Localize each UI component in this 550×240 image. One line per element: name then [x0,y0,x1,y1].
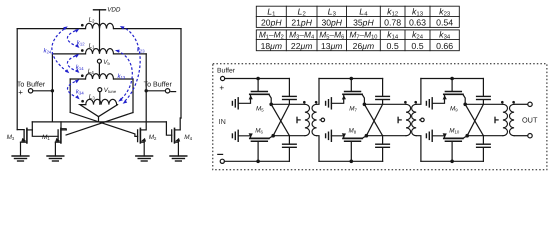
coupling arc k12 [67,30,78,47]
svg-text:0.5: 0.5 [411,41,423,51]
svg-text:OUT: OUT [522,115,538,124]
wire cross-couple diagonal to M2 gate [70,112,137,136]
coupling arc k34 [67,80,78,98]
wire gate riser M10 [451,141,453,161]
transistor M8 [343,138,362,141]
wire stage3 bottom node to T3 [467,135,503,137]
transformer T2 [406,104,411,135]
svg-text:VDD: VDD [107,7,121,14]
polarity dot primary [404,101,407,104]
svg-text:k14: k14 [76,64,84,71]
wire stage3 top node to T3 [465,103,503,105]
transistor M9 [444,92,463,95]
svg-text:21pH: 21pH [291,18,312,28]
buffer dashed enclosure [213,64,547,170]
svg-text:k34: k34 [76,89,84,96]
wire stage2 bottom node to T2 [366,135,406,137]
wire source of M6 to gnd [238,136,250,139]
svg-text:L3: L3 [89,93,96,100]
svg-text:0.78: 0.78 [384,18,401,28]
VDD supply symbol [94,9,106,11]
wire source of M8 to gnd [331,136,343,139]
coupling arc k23 [122,27,141,102]
node Vb terminal [97,59,101,63]
svg-text:26μm: 26μm [353,41,374,51]
junction drain node M9 [463,103,467,107]
L1 polarity dot [81,49,84,52]
OUT top terminal [528,102,532,106]
transistor M2 [138,128,146,156]
wire M1 gate feed from bus [32,122,58,136]
svg-text:L4: L4 [88,68,95,75]
wire drain of M8 [362,136,366,139]
wire L2 right [114,28,182,30]
wire right outer rail (L2 right down) [180,29,182,118]
wire top rail stage3 [421,78,484,80]
wire M1 drain drop [61,122,66,130]
svg-text:M3: M3 [7,134,15,141]
wire bottom rail stage1 [224,160,289,162]
ground under M2 [136,156,153,161]
ground (sideways) at M6 [232,130,238,141]
wire cross-couple M5 drain to lower cap node [271,104,289,135]
wire T2 secondary bottom riser [416,136,421,162]
svg-text:20pH: 20pH [261,18,282,28]
svg-text:0.66: 0.66 [436,41,453,51]
polarity dot primary [501,101,504,104]
wire L4 right [114,78,134,80]
wire L4 right vertical [132,79,134,113]
svg-text:To Buffer: To Buffer [17,80,46,88]
svg-text:Vtune: Vtune [104,87,117,94]
wire drain of M9 [463,94,465,104]
L4 polarity dot [81,74,84,77]
secondary center-tap terminal [420,119,421,121]
wire right inner rail (L1 right to M2 drain) [145,54,147,130]
primary center-tap [495,119,498,121]
wire source of M7 to gnd [331,94,343,103]
junction stage in+ M5 [256,77,260,81]
capacitor bottom of stage M8 [382,136,384,144]
wire L3 left V-arm [80,105,99,117]
wire stage1 bottom node to T1 [273,135,305,137]
IN+ terminal [221,76,225,80]
junction drain node M6 [271,134,275,138]
ground under M3 [12,156,29,161]
capacitor top of stage M7 [382,79,384,97]
wire cross-couple diagonal (right tank to M1) [66,113,133,136]
svg-text:18μm: 18μm [261,41,282,51]
junction stage in- M6 [256,160,260,164]
wire cross-couple M10 drain to upper cap node [467,104,483,135]
junction drain node M7 [363,103,367,107]
wire cross-couple M7 drain to lower cap node [364,104,382,135]
svg-text:M7: M7 [349,106,357,113]
wire top rail stage2 [319,78,383,80]
coupling arc k13 [117,51,132,101]
transistor M1 [55,128,66,156]
svg-text:k23: k23 [137,47,145,54]
wire M4 gate drop [166,122,171,135]
svg-text:L1: L1 [89,43,96,50]
node Vtune terminal [98,88,102,92]
minus sign right [171,91,176,93]
primary center-tap [398,119,401,121]
svg-text:22μm: 22μm [291,41,312,51]
svg-text:Vb: Vb [103,59,110,66]
wire stage1 top node to T1 [271,103,305,105]
Vb stem wire [98,63,100,75]
svg-text:Buffer: Buffer [217,68,236,75]
wire To Buffer left [33,90,53,92]
wire horizontal bus W1 [32,121,166,123]
capacitor top of stage M5 [288,79,290,97]
svg-text:k13: k13 [118,73,126,80]
ground (sideways) at M10 [426,130,432,141]
wire T2 secondary top riser [416,79,421,105]
wire bottom rail stage2 [319,160,383,162]
wire T3 secondary to OUT- [514,135,528,137]
junction stage in+ M9 [450,77,454,81]
svg-text:M1: M1 [42,134,50,141]
wire M3 gate jog [17,129,24,131]
primary center-tap [297,119,300,121]
svg-text:+: + [18,88,23,97]
junction stage in+ M7 [350,77,354,81]
capacitor top of stage M9 [482,79,484,97]
svg-text:0.5: 0.5 [387,41,399,51]
junction right To Buffer tap [145,89,148,92]
transistor M5 [250,92,269,95]
coupling arc k14 [67,55,78,72]
IN minus sign [218,153,223,155]
svg-text:L2: L2 [89,16,96,23]
wire gate riser M5 [257,79,259,92]
svg-text:M5–M6: M5–M6 [319,30,344,41]
ground (sideways) at M5 [232,98,238,109]
L3 polarity dot [81,100,84,103]
wire L4 left vertical [69,79,71,112]
svg-text:M4: M4 [184,134,192,141]
secondary center-tap terminal [320,119,321,121]
wire L3 right V-arm [99,105,118,117]
capacitor bottom of stage M10 [482,136,484,144]
wire drain of M10 [463,136,467,139]
To Buffer right terminal [165,89,169,93]
inductor L1 [86,49,114,54]
transformer T1 [305,104,310,135]
ground under M4 [170,156,187,161]
svg-text:k12: k12 [77,39,85,46]
ground under M1 [47,156,64,161]
ground (sideways) at M7 [326,98,332,109]
junction drain node M10 [465,134,469,138]
wire To Buffer right [146,90,165,92]
wire bottom rail stage3 [421,160,484,162]
transistor M7 [343,92,362,95]
wire gate riser M6 [257,141,259,161]
inductor L3 [86,99,117,104]
wire cross-couple M8 drain to upper cap node [366,104,382,135]
svg-text:M8: M8 [349,127,357,134]
svg-text:+: + [219,84,224,93]
wire drain of M6 [269,136,273,139]
coupling arc k24 [52,28,68,72]
wire V vertex stub [98,117,100,122]
svg-text:30pH: 30pH [321,18,342,28]
transistor M10 [444,138,463,141]
IN- terminal [220,159,224,163]
svg-text:35pH: 35pH [353,18,374,28]
transistor M4 [172,128,180,156]
OUT bottom terminal [528,134,532,138]
svg-text:0.63: 0.63 [409,18,426,28]
svg-text:M6: M6 [255,127,263,134]
svg-text:k24: k24 [44,48,52,55]
wire source of M10 to gnd [432,136,444,139]
transformer T3 [503,104,508,135]
wire drain of M5 [269,94,271,104]
wire top rail stage1 [225,78,290,80]
polarity dot secondary [512,101,515,104]
transistor M3 [21,128,33,156]
wire source of M5 to gnd [238,94,250,103]
svg-text:M9: M9 [450,106,458,113]
transistor M6 [250,138,269,141]
wire L1 left [52,53,85,55]
wire T1 secondary bottom riser [317,136,319,162]
svg-text:M2: M2 [149,134,157,141]
svg-text:M5: M5 [256,106,264,113]
table: inductance and coupling values [256,6,459,51]
polarity dot secondary [315,101,318,104]
svg-text:M10: M10 [449,127,460,134]
ground (sideways) at M8 [326,130,332,141]
svg-text:13μm: 13μm [321,41,342,51]
wire T3 secondary to OUT+ [514,103,528,105]
junction stage in- M8 [350,160,354,164]
svg-text:To Buffer: To Buffer [144,80,173,88]
wire left outer rail (L2 left to M3 gate) [16,29,18,130]
wire L4 left [70,78,85,80]
wire gate riser M8 [350,141,352,161]
L2 polarity dot [81,24,84,27]
wire left inner rail (L1 left down) [51,54,53,122]
capacitor bottom of stage M6 [288,136,290,144]
svg-text:M1–M2: M1–M2 [259,30,284,41]
wire cross-couple M9 drain to lower cap node [465,104,483,135]
svg-text:M3–M4: M3–M4 [289,30,314,41]
inductor L4 [86,74,114,79]
polarity dot secondary [414,101,417,104]
polarity dot primary [303,101,306,104]
junction stage in- M10 [450,160,454,164]
wire L1 right [114,53,147,55]
Vtune stem wire [99,92,101,105]
svg-text:IN: IN [219,117,226,126]
svg-text:0.54: 0.54 [436,18,453,28]
wire T1 secondary top riser [317,79,319,105]
junction left To Buffer tap [51,89,54,92]
junction drain node M8 [365,134,369,138]
wire stage2 top node to T2 [364,103,406,105]
inductor L2 [86,23,114,28]
wire L2 left [17,28,85,30]
ground (sideways) at M9 [426,98,432,109]
wire rail into M4 drain [179,118,182,130]
To Buffer left terminal [28,89,32,93]
wire cross-couple M6 drain to upper cap node [273,104,289,135]
wire drain of M7 [362,94,364,104]
wire source of M9 to gnd [432,94,444,103]
wire gate riser M7 [350,79,352,92]
wire gate riser M9 [451,79,453,92]
junction drain node M5 [269,103,273,107]
